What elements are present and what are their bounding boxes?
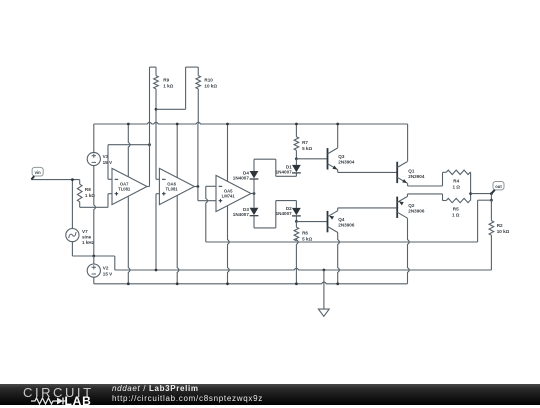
svg-text:2N3904: 2N3904 — [338, 160, 355, 165]
svg-text:R2: R2 — [497, 223, 503, 228]
svg-text:R5: R5 — [453, 207, 459, 212]
svg-text:10 kΩ: 10 kΩ — [204, 83, 217, 88]
svg-text:Q2: Q2 — [408, 203, 415, 208]
svg-text:1 kΩ: 1 kΩ — [163, 83, 173, 88]
svg-text:V7: V7 — [82, 229, 88, 234]
svg-text:2N3906: 2N3906 — [338, 223, 355, 228]
svg-text:R6: R6 — [302, 230, 308, 235]
svg-text:R7: R7 — [302, 140, 308, 145]
svg-text:1 Ω: 1 Ω — [452, 213, 460, 218]
svg-text:5 kΩ: 5 kΩ — [302, 146, 312, 151]
svg-text:1 kHz: 1 kHz — [82, 240, 95, 245]
svg-text:1 Ω: 1 Ω — [452, 184, 460, 189]
svg-text:LM741: LM741 — [222, 194, 236, 199]
svg-text:vin: vin — [35, 170, 41, 175]
svg-text:R9: R9 — [163, 77, 169, 82]
svg-text:TL081: TL081 — [166, 187, 179, 192]
svg-text:1N4007: 1N4007 — [233, 175, 250, 180]
svg-text:R8: R8 — [85, 187, 91, 192]
svg-text:1N4007: 1N4007 — [233, 212, 250, 217]
svg-text:15 V: 15 V — [103, 272, 113, 277]
svg-text:10 kΩ: 10 kΩ — [497, 229, 510, 234]
svg-text:TL081: TL081 — [118, 187, 131, 192]
svg-text:Q3: Q3 — [338, 154, 345, 159]
svg-text:5 kΩ: 5 kΩ — [302, 236, 312, 241]
svg-text:R10: R10 — [204, 77, 213, 82]
svg-text:R4: R4 — [453, 178, 459, 183]
svg-text:1N4007: 1N4007 — [276, 211, 293, 216]
svg-text:Q4: Q4 — [338, 217, 345, 222]
svg-text:1N4007: 1N4007 — [276, 169, 293, 174]
svg-text:out: out — [495, 184, 502, 189]
svg-text:2N3906: 2N3906 — [408, 209, 425, 214]
svg-text:2N3904: 2N3904 — [408, 174, 425, 179]
svg-text:V2: V2 — [103, 266, 109, 271]
svg-text:Q1: Q1 — [408, 168, 415, 173]
svg-text:sine: sine — [82, 235, 92, 240]
